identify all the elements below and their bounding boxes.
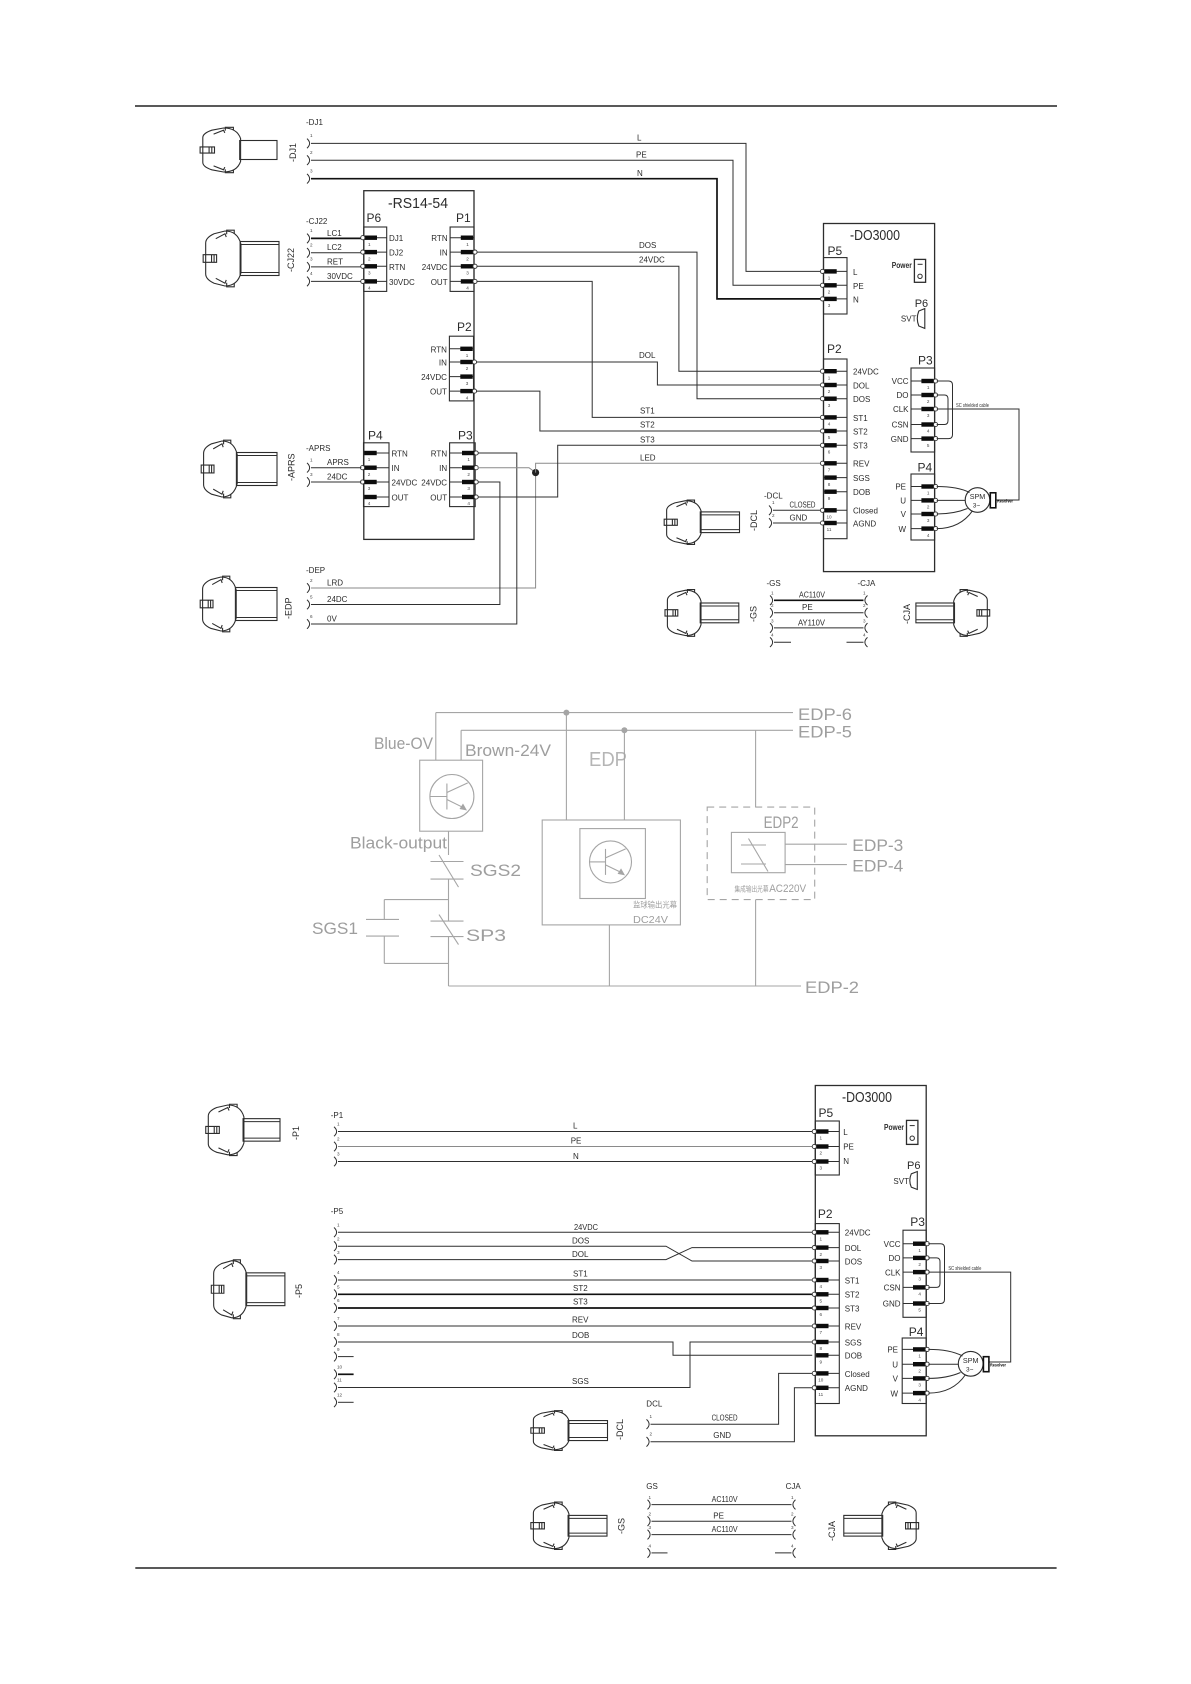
svg-text:OUT: OUT bbox=[431, 278, 448, 287]
svg-text:L: L bbox=[637, 134, 642, 143]
svg-text:2: 2 bbox=[310, 243, 313, 248]
svg-text:P2: P2 bbox=[827, 342, 842, 356]
svg-text:4: 4 bbox=[337, 1270, 340, 1275]
wire CLK shielded cable to resolver bbox=[928, 1272, 1010, 1362]
svg-text:1: 1 bbox=[863, 591, 866, 596]
node EDP-6 line bbox=[436, 712, 793, 714]
svg-text:2: 2 bbox=[918, 1262, 921, 1267]
wire ST3 bbox=[338, 1307, 812, 1309]
svg-text:IN: IN bbox=[392, 464, 400, 473]
connector -CJA plug icon bottom mirrored bbox=[844, 1502, 919, 1549]
svg-text:3: 3 bbox=[927, 518, 930, 523]
connector -GS plug icon bottom bbox=[531, 1502, 607, 1549]
svg-text:OUT: OUT bbox=[392, 494, 409, 503]
svg-text:3: 3 bbox=[828, 303, 831, 308]
node EDP-5 line bbox=[461, 729, 793, 731]
svg-text:-DCL: -DCL bbox=[615, 1419, 625, 1440]
svg-text:3: 3 bbox=[467, 486, 470, 491]
wire loop VCC to GND bbox=[937, 381, 953, 439]
svg-text:N: N bbox=[573, 1152, 579, 1161]
transistor Q2 in lightcurtain box bbox=[590, 841, 632, 883]
SVT D-connector icon bbox=[917, 309, 925, 329]
connector -DCL pins bbox=[769, 500, 775, 528]
svg-text:RTN: RTN bbox=[389, 263, 406, 272]
wire lightcurtain box bottom to EDP-2 bbox=[608, 925, 610, 986]
connector -EDP pins bbox=[307, 578, 313, 629]
svg-text:1: 1 bbox=[337, 1223, 340, 1228]
svg-text:U: U bbox=[892, 1360, 898, 1369]
svg-text:2: 2 bbox=[791, 1512, 794, 1517]
svg-text:ST2: ST2 bbox=[845, 1291, 860, 1300]
svg-text:-EDP: -EDP bbox=[284, 597, 294, 619]
svg-text:3: 3 bbox=[368, 486, 371, 491]
wire 0V from -EDP to RS P3.RTN bbox=[311, 453, 517, 624]
header P4 box bbox=[902, 1338, 926, 1404]
connector -GS pins 1-4 bbox=[770, 591, 774, 647]
svg-text:DOL: DOL bbox=[639, 351, 656, 360]
svg-text:1: 1 bbox=[368, 457, 371, 462]
svg-text:6: 6 bbox=[828, 450, 831, 455]
svg-text:1: 1 bbox=[650, 1414, 653, 1419]
svg-text:PE: PE bbox=[853, 282, 864, 291]
wire loop DO to CSN bbox=[928, 1258, 940, 1288]
svg-text:DOB: DOB bbox=[853, 488, 870, 497]
lightcurtain box DC24V inner bbox=[580, 829, 646, 899]
junction dot EDP-5 bbox=[621, 727, 627, 733]
svg-text:1: 1 bbox=[820, 1237, 823, 1242]
svg-text:8: 8 bbox=[337, 1332, 340, 1337]
wire ST2 from RS P2.OUT to DO3000 P2.ST2 bbox=[476, 391, 820, 431]
header P6 box bbox=[364, 227, 387, 291]
svg-text:9: 9 bbox=[820, 1360, 823, 1365]
svg-text:4: 4 bbox=[368, 286, 371, 291]
svg-text:N: N bbox=[853, 295, 859, 304]
pin labels P2 bbox=[845, 1229, 871, 1394]
svg-text:10: 10 bbox=[818, 1378, 824, 1383]
switch SGS2 bbox=[431, 861, 464, 863]
svg-text:3: 3 bbox=[466, 271, 469, 276]
header P4 pins PE U V W bbox=[911, 484, 938, 538]
wire AC110V bbox=[652, 1504, 792, 1506]
svg-text:L: L bbox=[573, 1122, 578, 1131]
svg-text:Resolver: Resolver bbox=[997, 499, 1013, 505]
wire loop DO to CSN bbox=[937, 395, 948, 425]
connector -DJ1 plug icon bbox=[200, 127, 277, 172]
connector DCL pins bbox=[647, 1414, 653, 1447]
svg-text:CLK: CLK bbox=[885, 1268, 901, 1277]
svg-text:-DCL: -DCL bbox=[749, 510, 759, 531]
node EDP-2 line bbox=[449, 985, 802, 987]
svg-text:PE: PE bbox=[636, 150, 647, 159]
svg-text:3: 3 bbox=[310, 472, 313, 477]
svg-text:24DC: 24DC bbox=[327, 472, 348, 481]
svg-text:PE: PE bbox=[895, 483, 906, 492]
svg-text:GND: GND bbox=[883, 1300, 901, 1309]
svg-text:ST1: ST1 bbox=[845, 1276, 860, 1285]
svg-text:1: 1 bbox=[466, 353, 469, 358]
svg-text:Closed: Closed bbox=[845, 1370, 870, 1379]
connector -EDP plug icon bbox=[200, 576, 277, 632]
wire DOL crossover to P2.DOL bbox=[338, 1248, 812, 1260]
svg-text:2: 2 bbox=[828, 290, 831, 295]
svg-text:-DJ1: -DJ1 bbox=[288, 143, 298, 162]
wire ST3 from RS P3.OUT to DO3000 P2.ST3 bbox=[478, 445, 821, 497]
wire APRS to RS14-54 P4.IN bbox=[311, 467, 361, 469]
pin labels P4 bbox=[392, 450, 418, 503]
svg-text:12: 12 bbox=[337, 1393, 343, 1398]
header P3 pins VCC DO CLK CSN GND bbox=[903, 1242, 929, 1313]
svg-text:11: 11 bbox=[818, 1392, 823, 1397]
svg-text:-DJ1: -DJ1 bbox=[306, 118, 323, 127]
svg-text:EDP-3: EDP-3 bbox=[852, 837, 903, 855]
wire black-output vertical bbox=[448, 831, 450, 855]
svg-text:-DO3000: -DO3000 bbox=[850, 228, 900, 244]
svg-text:4: 4 bbox=[467, 501, 470, 506]
svg-text:9: 9 bbox=[828, 496, 831, 501]
pin labels P2 bbox=[853, 368, 879, 529]
svg-text:L: L bbox=[853, 268, 858, 277]
svg-text:W: W bbox=[890, 1389, 898, 1398]
svg-text:2: 2 bbox=[863, 603, 866, 608]
svg-text:1: 1 bbox=[649, 1495, 652, 1500]
switch inside EDP2 bbox=[741, 839, 768, 872]
svg-text:2: 2 bbox=[820, 1252, 823, 1257]
wire LED from junction to DO3000 P2.REV bbox=[536, 463, 821, 472]
svg-text:DOL: DOL bbox=[853, 381, 870, 390]
header P3 box bbox=[450, 443, 476, 507]
svg-text:3: 3 bbox=[791, 1525, 794, 1530]
wire stub pin10 bbox=[338, 1373, 354, 1375]
svg-text:ST3: ST3 bbox=[845, 1304, 860, 1313]
svg-text:DOB: DOB bbox=[845, 1352, 862, 1361]
header P5 box bbox=[815, 1121, 839, 1175]
connector -P5 plug icon bbox=[211, 1260, 285, 1319]
svg-text:-DO3000: -DO3000 bbox=[842, 1090, 892, 1106]
svg-text:GND: GND bbox=[790, 513, 808, 522]
svg-text:GND: GND bbox=[713, 1431, 731, 1440]
svg-text:-P5: -P5 bbox=[331, 1207, 344, 1216]
svg-text:2: 2 bbox=[927, 505, 930, 510]
wire L from -DJ1 to DO3000 P5.L bbox=[311, 143, 820, 271]
wire AC110V 2 bbox=[652, 1534, 792, 1536]
svg-text:VCC: VCC bbox=[892, 377, 909, 386]
header P3 box bbox=[911, 368, 935, 452]
svg-text:4: 4 bbox=[918, 1397, 921, 1402]
svg-text:U: U bbox=[900, 497, 906, 506]
svg-text:8: 8 bbox=[820, 1346, 823, 1351]
svg-text:4: 4 bbox=[927, 533, 930, 538]
SVT D-connector icon bbox=[910, 1172, 918, 1190]
wire EDP-6 drop to lightcurtain box bbox=[565, 713, 567, 820]
svg-text:LRD: LRD bbox=[327, 578, 343, 587]
svg-text:VCC: VCC bbox=[884, 1240, 901, 1249]
wire GND to P2.AGND bbox=[651, 1388, 813, 1442]
svg-text:2: 2 bbox=[772, 513, 775, 518]
svg-text:10: 10 bbox=[826, 515, 832, 520]
wire RS P3.IN to junction bbox=[478, 468, 536, 473]
svg-text:DJ2: DJ2 bbox=[389, 249, 404, 258]
svg-text:SPM: SPM bbox=[970, 492, 986, 501]
svg-text:3: 3 bbox=[820, 1265, 823, 1270]
svg-text:1: 1 bbox=[772, 500, 775, 505]
wire AY110V bbox=[774, 627, 864, 629]
wire SGS jog up to P2.SGS bbox=[338, 1342, 812, 1388]
junction node dot bbox=[532, 469, 539, 476]
wire N from -DJ1 to DO3000 P5.N bbox=[311, 179, 820, 299]
svg-text:3: 3 bbox=[466, 381, 469, 386]
bottom border rule bbox=[135, 1567, 1056, 1569]
svg-text:Blue-OV: Blue-OV bbox=[374, 735, 433, 753]
svg-text:-CJA: -CJA bbox=[827, 1521, 837, 1541]
svg-text:3: 3 bbox=[918, 1276, 921, 1281]
svg-text:3~: 3~ bbox=[966, 1366, 974, 1373]
svg-text:W: W bbox=[898, 525, 906, 534]
motor SPM 3~ circle bbox=[965, 488, 990, 513]
svg-text:4: 4 bbox=[466, 395, 469, 400]
svg-text:-APRS: -APRS bbox=[306, 444, 330, 453]
svg-text:IN: IN bbox=[440, 249, 448, 258]
connector -APRS plug icon bbox=[201, 440, 277, 498]
svg-text:SC shielded cable: SC shielded cable bbox=[956, 403, 989, 409]
relay EDP2 dashed box bbox=[707, 807, 815, 900]
header P2 pins RTN IN 24VDC OUT bbox=[449, 347, 476, 401]
svg-text:5: 5 bbox=[310, 594, 313, 599]
svg-text:DOS: DOS bbox=[572, 1237, 589, 1246]
svg-text:-GS: -GS bbox=[617, 1518, 627, 1534]
svg-text:EDP: EDP bbox=[589, 749, 627, 771]
svg-text:V: V bbox=[893, 1375, 899, 1384]
svg-text:AC110V: AC110V bbox=[712, 1525, 739, 1534]
pin labels P4 bbox=[887, 1346, 898, 1399]
svg-text:6: 6 bbox=[820, 1312, 823, 1317]
svg-text:P2: P2 bbox=[457, 320, 472, 334]
wire CLOSED to DO3000 P2.Closed bbox=[773, 509, 820, 511]
svg-text:24VDC: 24VDC bbox=[639, 255, 665, 264]
svg-text:P6: P6 bbox=[367, 211, 382, 225]
svg-text:CSN: CSN bbox=[884, 1284, 901, 1293]
svg-text:0V: 0V bbox=[327, 614, 337, 623]
wire EDP-5 drop to EDP2 box bbox=[755, 730, 757, 807]
svg-text:P5: P5 bbox=[828, 244, 843, 258]
svg-text:CLK: CLK bbox=[893, 405, 909, 414]
connector -CJ22 pins 1-4 bbox=[307, 228, 313, 286]
svg-text:24DC: 24DC bbox=[327, 595, 348, 604]
svg-text:-CJA: -CJA bbox=[858, 579, 876, 588]
svg-text:ST1: ST1 bbox=[640, 407, 655, 416]
svg-text:RTN: RTN bbox=[431, 234, 448, 243]
svg-text:3: 3 bbox=[863, 618, 866, 623]
block -DO3000 outline bbox=[824, 224, 935, 572]
svg-text:DOB: DOB bbox=[572, 1331, 589, 1340]
svg-text:5: 5 bbox=[918, 1308, 921, 1313]
svg-text:2: 2 bbox=[918, 1368, 921, 1373]
header P2 box bbox=[815, 1224, 839, 1404]
header P4 box bbox=[364, 443, 390, 507]
wire EDP-3 from EDP2 bbox=[785, 843, 847, 845]
svg-text:4: 4 bbox=[828, 422, 831, 427]
connector -DCL plug icon bottom bbox=[531, 1411, 608, 1451]
svg-text:AC220V: AC220V bbox=[769, 883, 807, 895]
svg-text:DOS: DOS bbox=[639, 241, 656, 250]
pin labels P2 bbox=[421, 345, 447, 396]
header P1 pins RTN IN 24VDC OUT bbox=[450, 236, 477, 291]
svg-text:监球输出光幕: 监球输出光幕 bbox=[633, 900, 677, 910]
svg-text:-P5: -P5 bbox=[294, 1284, 304, 1298]
svg-text:EDP-6: EDP-6 bbox=[798, 706, 852, 724]
relay EDP2 inner box bbox=[731, 832, 785, 872]
svg-text:1: 1 bbox=[828, 375, 831, 380]
svg-text:APRS: APRS bbox=[327, 458, 349, 467]
svg-text:AY110V: AY110V bbox=[798, 618, 826, 627]
svg-text:2: 2 bbox=[466, 366, 469, 371]
header P5 box bbox=[824, 258, 848, 314]
svg-text:L: L bbox=[843, 1128, 848, 1137]
pin labels P6 bbox=[389, 234, 415, 287]
svg-text:3: 3 bbox=[337, 1250, 340, 1255]
wire EDP2 box to EDP-2 line bbox=[755, 900, 757, 986]
svg-text:RTN: RTN bbox=[431, 345, 448, 354]
svg-text:4: 4 bbox=[863, 633, 866, 638]
svg-text:24VDC: 24VDC bbox=[574, 1223, 598, 1232]
header P1 box bbox=[450, 227, 474, 291]
header P2 pins bbox=[820, 369, 847, 532]
svg-text:-CJA: -CJA bbox=[902, 604, 912, 624]
svg-text:CJA: CJA bbox=[786, 1482, 802, 1491]
svg-text:1: 1 bbox=[820, 1136, 823, 1141]
svg-text:Closed: Closed bbox=[853, 507, 878, 516]
svg-text:2: 2 bbox=[337, 1137, 340, 1142]
svg-text:-DEP: -DEP bbox=[306, 566, 325, 575]
svg-text:2: 2 bbox=[368, 256, 371, 261]
svg-text:GS: GS bbox=[646, 1482, 658, 1491]
svg-text:P3: P3 bbox=[458, 429, 473, 443]
header P3 pins RTN IN 24VDC OUT bbox=[450, 451, 479, 506]
wire pin4 stubs bbox=[774, 641, 791, 643]
svg-text:24VDC: 24VDC bbox=[845, 1229, 871, 1238]
svg-text:ST1: ST1 bbox=[573, 1270, 588, 1279]
svg-text:1: 1 bbox=[918, 1354, 921, 1359]
svg-text:3~: 3~ bbox=[973, 503, 981, 510]
svg-text:CSN: CSN bbox=[892, 421, 909, 430]
svg-text:1: 1 bbox=[791, 1495, 794, 1500]
svg-text:OUT: OUT bbox=[430, 388, 447, 397]
wire PE from -DJ1 to DO3000 P5.PE bbox=[311, 160, 820, 285]
svg-text:4: 4 bbox=[918, 1292, 921, 1297]
wire LC1 bbox=[311, 237, 362, 239]
svg-text:-CJ22: -CJ22 bbox=[286, 248, 296, 272]
svg-text:Black-output: Black-output bbox=[350, 835, 447, 853]
pin labels P3 bbox=[421, 450, 447, 503]
svg-text:EDP-2: EDP-2 bbox=[805, 979, 859, 997]
svg-text:OUT: OUT bbox=[430, 494, 447, 503]
svg-text:7: 7 bbox=[828, 468, 831, 473]
svg-text:1: 1 bbox=[466, 242, 469, 247]
header P6 pins DJ1 DJ2 RTN 30VDC bbox=[361, 236, 387, 291]
wire ST1 from RS P1.OUT to DO3000 P2.ST1 bbox=[477, 281, 821, 417]
svg-text:DOS: DOS bbox=[845, 1257, 862, 1266]
svg-text:1: 1 bbox=[368, 242, 371, 247]
svg-text:2: 2 bbox=[467, 472, 470, 477]
svg-text:3: 3 bbox=[310, 169, 313, 174]
top border rule bbox=[135, 105, 1057, 107]
header P2 box bbox=[449, 336, 473, 401]
svg-text:Brown-24V: Brown-24V bbox=[465, 742, 551, 760]
svg-text:DCL: DCL bbox=[646, 1400, 663, 1409]
svg-text:SGS1: SGS1 bbox=[312, 920, 358, 938]
connector -DJ1 pins 1-3 bbox=[307, 133, 313, 183]
svg-text:11: 11 bbox=[337, 1378, 342, 1383]
svg-text:P4: P4 bbox=[909, 1325, 924, 1339]
svg-text:P4: P4 bbox=[368, 429, 383, 443]
svg-text:DO: DO bbox=[889, 1254, 901, 1263]
svg-text:4: 4 bbox=[649, 1543, 652, 1548]
wire GND to DO3000 P2.AGND bbox=[773, 522, 820, 524]
svg-text:4: 4 bbox=[791, 1543, 794, 1548]
wire 30VDC bbox=[311, 280, 362, 282]
svg-text:SC shielded cable: SC shielded cable bbox=[948, 1266, 981, 1272]
svg-text:-APRS: -APRS bbox=[287, 453, 297, 481]
motor SPM3 wires PE U V W bbox=[928, 1349, 965, 1393]
wire PE bbox=[774, 612, 864, 614]
svg-text:RTN: RTN bbox=[431, 450, 448, 459]
svg-text:11: 11 bbox=[827, 527, 832, 532]
svg-text:Power: Power bbox=[884, 1123, 904, 1132]
optocoupler box 1 bbox=[420, 760, 483, 831]
svg-text:2: 2 bbox=[650, 1432, 653, 1437]
pin labels P1 bbox=[422, 234, 448, 287]
svg-text:4: 4 bbox=[820, 1284, 823, 1289]
svg-text:LC2: LC2 bbox=[327, 243, 342, 252]
wire ST2 bbox=[338, 1293, 812, 1295]
svg-text:1: 1 bbox=[927, 385, 930, 390]
svg-text:SPM: SPM bbox=[963, 1356, 979, 1365]
motor SPM 3~ circle bbox=[958, 1351, 983, 1376]
svg-text:24VDC: 24VDC bbox=[853, 368, 879, 377]
svg-text:2: 2 bbox=[368, 472, 371, 477]
wire DOS from RS P1.IN to DO3000 P2.DOS bbox=[477, 252, 821, 399]
svg-text:7: 7 bbox=[820, 1330, 823, 1335]
svg-text:-GS: -GS bbox=[767, 579, 781, 588]
svg-text:3: 3 bbox=[828, 403, 831, 408]
svg-text:1: 1 bbox=[310, 228, 313, 233]
svg-text:LED: LED bbox=[640, 453, 656, 462]
svg-text:P3: P3 bbox=[918, 354, 933, 368]
wire loop VCC to GND bbox=[928, 1244, 944, 1304]
svg-text:-P1: -P1 bbox=[331, 1111, 344, 1120]
header P4 pins RTN IN 24VDC OUT bbox=[360, 451, 389, 506]
svg-text:P6: P6 bbox=[915, 298, 928, 310]
svg-text:-RS14-54: -RS14-54 bbox=[388, 196, 448, 212]
svg-text:IN: IN bbox=[439, 464, 447, 473]
svg-text:AC110V: AC110V bbox=[799, 591, 826, 600]
svg-text:2: 2 bbox=[337, 1236, 340, 1241]
svg-text:4: 4 bbox=[466, 286, 469, 291]
svg-text:RTN: RTN bbox=[392, 450, 409, 459]
wire LC2 bbox=[311, 252, 362, 254]
connector -CJA pins 1-4 bbox=[863, 591, 868, 647]
wire N to DO3000 P5.N bbox=[338, 1161, 812, 1163]
svg-text:DC24V: DC24V bbox=[633, 914, 668, 926]
wire Brown-24V drop to optocoupler box bbox=[460, 730, 462, 760]
svg-text:3: 3 bbox=[368, 271, 371, 276]
svg-text:PE: PE bbox=[843, 1143, 854, 1152]
svg-text:2: 2 bbox=[466, 256, 469, 261]
wire PE to DO3000 P5.PE bbox=[338, 1146, 812, 1148]
svg-text:CLOSED: CLOSED bbox=[712, 1413, 738, 1422]
svg-text:1: 1 bbox=[828, 276, 831, 281]
svg-text:Resolver: Resolver bbox=[990, 1363, 1006, 1369]
svg-text:IN: IN bbox=[439, 359, 447, 368]
